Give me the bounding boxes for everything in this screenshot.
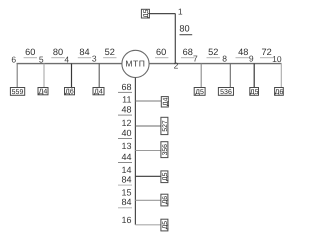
wire: drop node 10	[280, 64, 282, 88]
svg-text:1: 1	[178, 6, 183, 16]
load box node 1 value Д5	[141, 9, 149, 18]
wire: main horizontal bus	[17, 63, 282, 65]
svg-text:Д4: Д4	[39, 89, 48, 96]
svg-text:3: 3	[92, 54, 97, 64]
svg-text:6: 6	[11, 54, 16, 64]
svg-text:60: 60	[156, 47, 166, 57]
svg-text:68: 68	[183, 47, 193, 57]
load box node 7 value Д5	[194, 88, 205, 96]
svg-text:4: 4	[64, 54, 69, 64]
svg-text:13: 13	[121, 141, 131, 151]
load box node 11 value Д4	[161, 97, 168, 107]
svg-text:356: 356	[162, 144, 169, 156]
load box node 16 value Д5	[161, 219, 168, 231]
load box node 5 value Д4	[38, 88, 48, 95]
svg-text:7: 7	[193, 54, 198, 64]
load box node 10 value Д6	[275, 88, 284, 96]
svg-text:Д5: Д5	[143, 9, 150, 18]
svg-text:11: 11	[122, 94, 131, 104]
wire: feeder vertical from МТП	[134, 78, 136, 225]
svg-text:52: 52	[105, 47, 115, 57]
wire: branch node 12	[135, 125, 161, 127]
wire: top horizontal to load box 1	[149, 13, 175, 15]
svg-text:Д5: Д5	[162, 172, 169, 181]
svg-text:84: 84	[121, 197, 131, 207]
wire: branch node 16	[135, 224, 161, 226]
svg-text:52: 52	[208, 47, 218, 57]
svg-text:68: 68	[121, 82, 131, 92]
load box node 13 value 356	[161, 142, 168, 158]
svg-text:10: 10	[272, 54, 282, 64]
svg-text:60: 60	[25, 47, 35, 57]
svg-text:15: 15	[121, 187, 131, 197]
svg-text:Д4: Д4	[94, 89, 103, 96]
svg-text:40: 40	[121, 128, 131, 138]
svg-text:Д6: Д6	[162, 196, 169, 205]
svg-text:2: 2	[174, 61, 179, 71]
load box node 4 value Д6	[65, 88, 75, 95]
wire: branch node 13	[135, 150, 161, 152]
transformer substation МТП	[122, 50, 149, 77]
svg-text:Д5: Д5	[250, 89, 259, 96]
svg-text:44: 44	[121, 152, 131, 162]
svg-text:Д6: Д6	[65, 89, 74, 96]
svg-text:МТП: МТП	[125, 58, 145, 68]
svg-text:14: 14	[121, 165, 131, 175]
load box node 15 value Д6	[161, 194, 168, 206]
wire: branch node 15	[135, 199, 161, 201]
svg-text:72: 72	[261, 47, 271, 57]
load box node 9 value Д5	[250, 88, 259, 96]
svg-text:12: 12	[121, 118, 131, 128]
svg-text:559: 559	[12, 89, 24, 96]
svg-text:536: 536	[220, 89, 232, 96]
wire: branch node 11	[135, 100, 161, 102]
wire: riser node 2 to node 1	[174, 14, 176, 64]
wire: drop node 9	[253, 64, 255, 88]
svg-text:Д4: Д4	[162, 97, 169, 106]
wire: drop node 3	[98, 64, 100, 88]
svg-text:Д5: Д5	[195, 89, 204, 96]
wire: branch node 14	[135, 175, 161, 177]
svg-text:16: 16	[121, 215, 131, 225]
svg-text:Д5: Д5	[162, 221, 169, 230]
svg-text:Д6: Д6	[275, 89, 284, 96]
svg-text:80: 80	[179, 24, 189, 34]
svg-text:8: 8	[222, 54, 227, 64]
load box node 8 value 536	[218, 88, 233, 96]
wire: drop node 6	[16, 64, 18, 88]
load box node 3 value Д4	[93, 88, 104, 95]
svg-text:48: 48	[238, 47, 248, 57]
wire: drop node 8	[229, 64, 231, 88]
wire: drop node 5	[43, 64, 45, 88]
svg-text:84: 84	[79, 47, 89, 57]
load box node 14 value Д5	[161, 171, 168, 183]
svg-text:48: 48	[121, 104, 131, 114]
load box node 6 value 559	[10, 88, 24, 96]
svg-text:84: 84	[121, 175, 131, 185]
svg-text:527: 527	[162, 120, 169, 132]
load box node 12 value 527	[161, 117, 168, 134]
svg-text:5: 5	[39, 54, 44, 64]
wire: drop node 7	[200, 64, 202, 88]
wire: drop node 4	[71, 64, 73, 88]
svg-text:80: 80	[53, 47, 63, 57]
svg-text:9: 9	[249, 53, 254, 63]
